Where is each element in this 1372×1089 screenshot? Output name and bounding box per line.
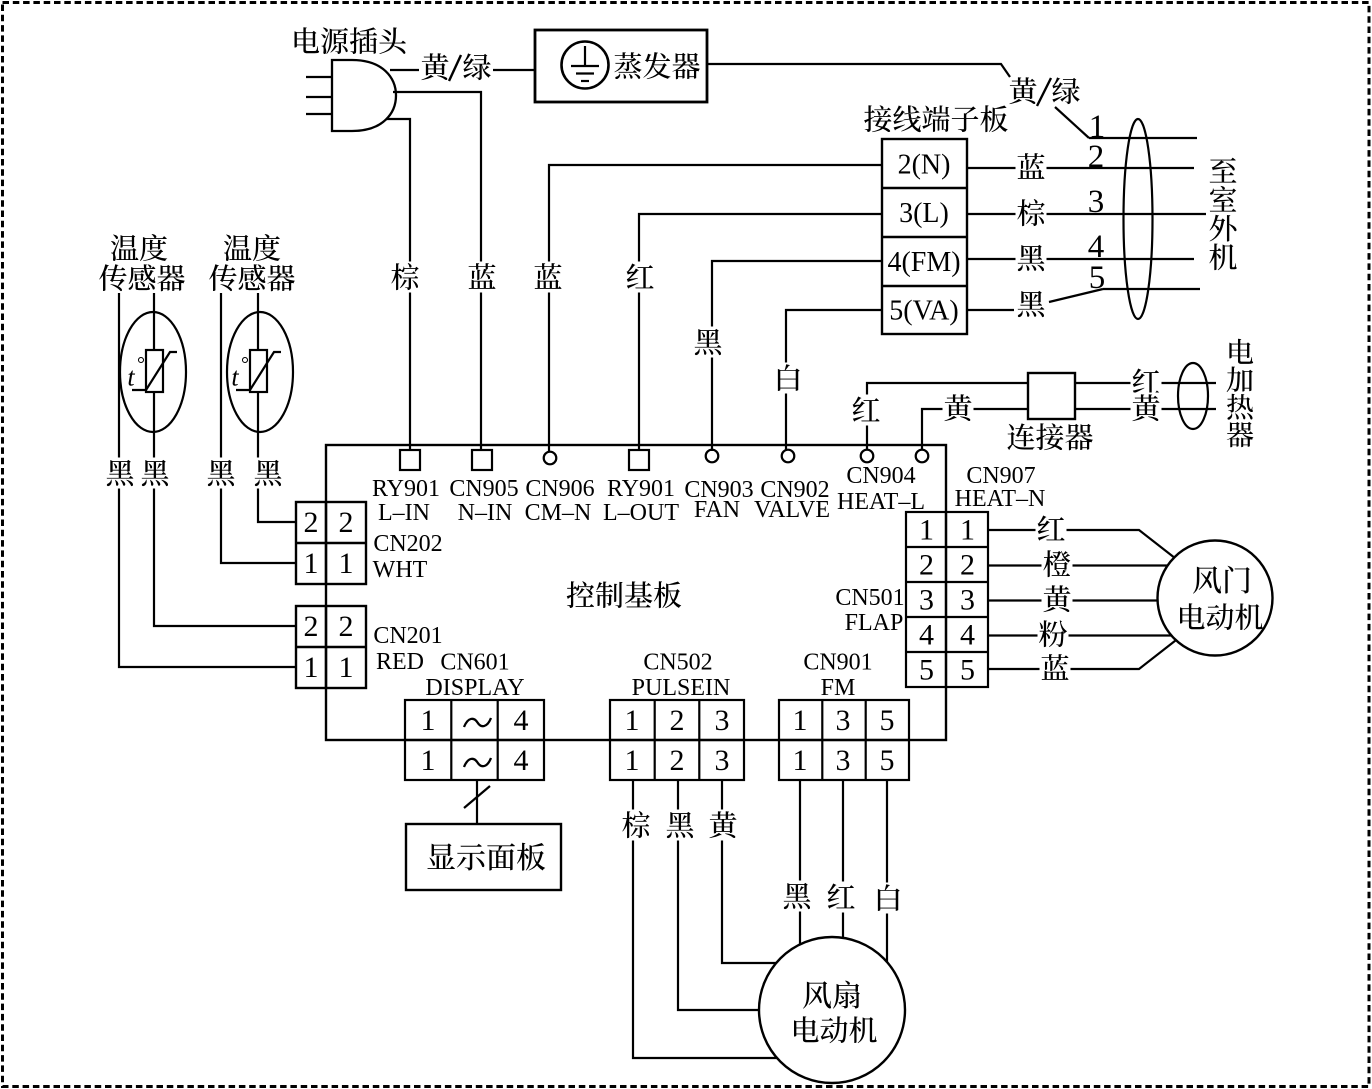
terminal 2(N) label [898,149,951,180]
power plug P1 [306,60,396,131]
terminal board TB1 [882,139,967,334]
svg-text:3: 3 [960,584,975,617]
wire 4(FM) to CN903 (black) [693,261,883,451]
svg-text:1: 1 [919,514,934,547]
svg-text:1: 1 [421,744,436,777]
wire CN904 to connector (red) [851,383,1029,450]
svg-text:CN906: CN906 [525,476,594,502]
terminal 4(FM) label [887,247,960,278]
wire evaporator to outdoor cable (yellow/green) [707,64,1010,77]
svg-text:1: 1 [625,744,640,777]
svg-text:PULSEIN: PULSEIN [632,675,731,701]
wire CN502-3 to fan motor (yellow) [708,780,791,963]
outdoor wire 3 (brown) [967,184,1206,228]
svg-text:3: 3 [715,744,730,777]
label 至室外机 (to outdoor unit) [1209,158,1236,271]
terminal 5(VA) label [889,295,958,326]
svg-text:1: 1 [625,704,640,737]
connector box 连接器 [1028,373,1075,419]
svg-text:4: 4 [960,619,975,652]
svg-text:1: 1 [793,704,808,737]
wire CN901-3 to fan motor (red) [826,780,857,945]
sensor2 wire left (to CN202-1) [221,293,296,563]
svg-text:1: 1 [304,547,319,580]
wire plug to evaporator (yellow/green) [390,52,535,83]
svg-text:2(N): 2(N) [898,149,951,180]
svg-text:3(L): 3(L) [899,198,949,229]
connector CN907 HEAT-N [916,450,1046,512]
svg-text:3: 3 [919,584,934,617]
connector CN903 FAN [684,450,753,523]
wire diagonal to outdoor wire 1 [1055,107,1089,138]
display panel 显示面板 [406,824,561,890]
wire CN501-3 to flap motor (yellow) [988,584,1165,615]
fan motor 风扇电动机 [759,937,905,1083]
svg-text:3: 3 [836,744,851,777]
label 黄/绿 top right [1009,77,1079,106]
sensor2 wire right (to CN202-2) [258,293,296,522]
svg-text:2: 2 [960,549,975,582]
svg-text:5: 5 [880,744,895,777]
connector CN906 CM-N [525,452,595,526]
svg-text:t: t [127,363,135,392]
sensor2 label 温度传感器 [209,234,295,291]
svg-text:1: 1 [339,651,354,684]
svg-text:2: 2 [1088,139,1105,175]
svg-text:5: 5 [919,654,934,687]
svg-text:CN905: CN905 [449,476,518,502]
outdoor wire 4 (black) [967,229,1194,273]
svg-text:1: 1 [304,651,319,684]
connector CN502 PULSEIN [610,650,744,781]
wire CN901-1 to fan motor (black) [782,780,813,952]
wire CN501-1 to flap motor (red) [988,514,1180,563]
wire CN907 to connector (yellow) [922,393,1028,451]
connector RY901 L-OUT [603,450,679,526]
temperature sensor RT1 [120,312,186,432]
svg-text:CN201: CN201 [373,623,442,649]
wire CN502-2 to fan motor (black) [665,780,776,1010]
svg-text:CN502: CN502 [643,650,712,676]
svg-text:RY901: RY901 [607,476,675,502]
svg-text:CN601: CN601 [440,650,509,676]
sensor1 black labels [105,458,171,489]
svg-text:2: 2 [670,744,685,777]
svg-text:2: 2 [304,506,319,539]
wire CN501-4 to flap motor (pink) [988,619,1172,650]
svg-text:1: 1 [421,704,436,737]
svg-text:RED: RED [376,649,424,675]
svg-text:RY901: RY901 [372,476,440,502]
svg-text:1: 1 [339,547,354,580]
wire 3(L) to RY901 L-OUT (red) [625,214,883,450]
connector RY901 L-IN [372,450,440,526]
svg-text:°: ° [241,354,249,376]
wire plug to CN905 (blue) [393,92,498,450]
outdoor cable bundle ellipse [1124,119,1153,319]
temperature sensor RT2 [227,312,293,432]
svg-text:5: 5 [880,704,895,737]
power plug label 电源插头 [295,27,406,54]
svg-text:N–IN: N–IN [458,500,513,526]
wire 5(VA) to CN902 (white) [773,310,883,451]
svg-text:CN901: CN901 [803,650,872,676]
svg-text:CN501: CN501 [835,585,904,611]
ground symbol in evaporator [562,42,609,89]
svg-text:2: 2 [919,549,934,582]
svg-text:WHT: WHT [373,557,428,583]
svg-text:4: 4 [514,704,529,737]
connector CN202 WHT [296,502,443,584]
svg-text:5: 5 [1089,260,1106,296]
outdoor wire 2 (blue) [967,139,1194,182]
svg-text:4(FM): 4(FM) [887,247,960,278]
heater wire yellow [1075,393,1216,424]
svg-text:3: 3 [836,704,851,737]
label 电加热器 (electric heater) [1227,339,1254,448]
svg-text:4: 4 [919,619,934,652]
svg-text:5: 5 [960,654,975,687]
svg-text:L–OUT: L–OUT [603,500,679,526]
wire plug to RY901 L-IN (brown) [386,119,421,450]
wire CN501-2 to flap motor (orange) [988,549,1172,580]
svg-text:FAN: FAN [694,497,740,523]
connector CN601 DISPLAY [405,650,544,781]
sensor1 wire left (to CN201-1) [119,293,296,667]
svg-text:CN202: CN202 [373,531,442,557]
svg-text:CM–N: CM–N [525,500,592,526]
sensor2 black labels [206,458,284,489]
svg-text:VALVE: VALVE [754,497,830,523]
connector CN902 VALVE [754,450,830,523]
svg-text:DISPLAY: DISPLAY [425,675,524,701]
wire 2(N) to CN906 (blue) [533,165,883,451]
terminal board label 接线端子板 [864,105,1008,132]
evaporator box 蒸发器 [535,30,707,102]
wire CN502-1 to fan motor (brown) [621,780,791,1058]
svg-text:FLAP: FLAP [845,610,904,636]
connector CN901 FM [779,650,909,781]
outdoor wire 5 (black) [967,260,1200,317]
sensor1 label 温度传感器 [99,234,185,291]
svg-text:FM: FM [821,675,856,701]
svg-text:3: 3 [715,704,730,737]
outdoor wire 1 [1089,109,1197,145]
terminal 3(L) label [899,198,949,229]
evaporator label 蒸发器 [614,52,699,79]
svg-text:L–IN: L–IN [378,500,430,526]
heater wire red [1075,367,1216,398]
svg-text:3: 3 [1088,184,1105,220]
heater cable ellipse [1178,363,1208,429]
svg-text:5(VA): 5(VA) [889,295,958,326]
connector CN904 HEAT-L [837,450,925,515]
wire CN901-5 to fan motor (white) [873,780,904,972]
connector CN201 RED [296,606,443,688]
svg-text:CN904: CN904 [846,463,915,489]
svg-text:2: 2 [304,610,319,643]
control board label 控制基板 [567,581,681,608]
wire CN501-5 to flap motor (blue) [988,637,1180,684]
svg-text:2: 2 [670,704,685,737]
svg-text:°: ° [137,354,145,376]
connector CN905 N-IN [449,450,518,526]
svg-text:1: 1 [960,514,975,547]
connector label 连接器 [1007,423,1092,450]
svg-text:2: 2 [339,610,354,643]
flap motor 风门电动机 [1158,541,1273,656]
svg-text:1: 1 [793,744,808,777]
svg-text:4: 4 [514,744,529,777]
control board 控制基板 [326,445,946,740]
sensor1 wire right (to CN201-2) [154,293,296,626]
svg-text:HEAT–N: HEAT–N [955,486,1046,512]
connector CN501 FLAP [835,512,988,687]
svg-text:t: t [231,363,239,392]
wire CN601 to display panel [464,780,490,824]
svg-text:2: 2 [339,506,354,539]
